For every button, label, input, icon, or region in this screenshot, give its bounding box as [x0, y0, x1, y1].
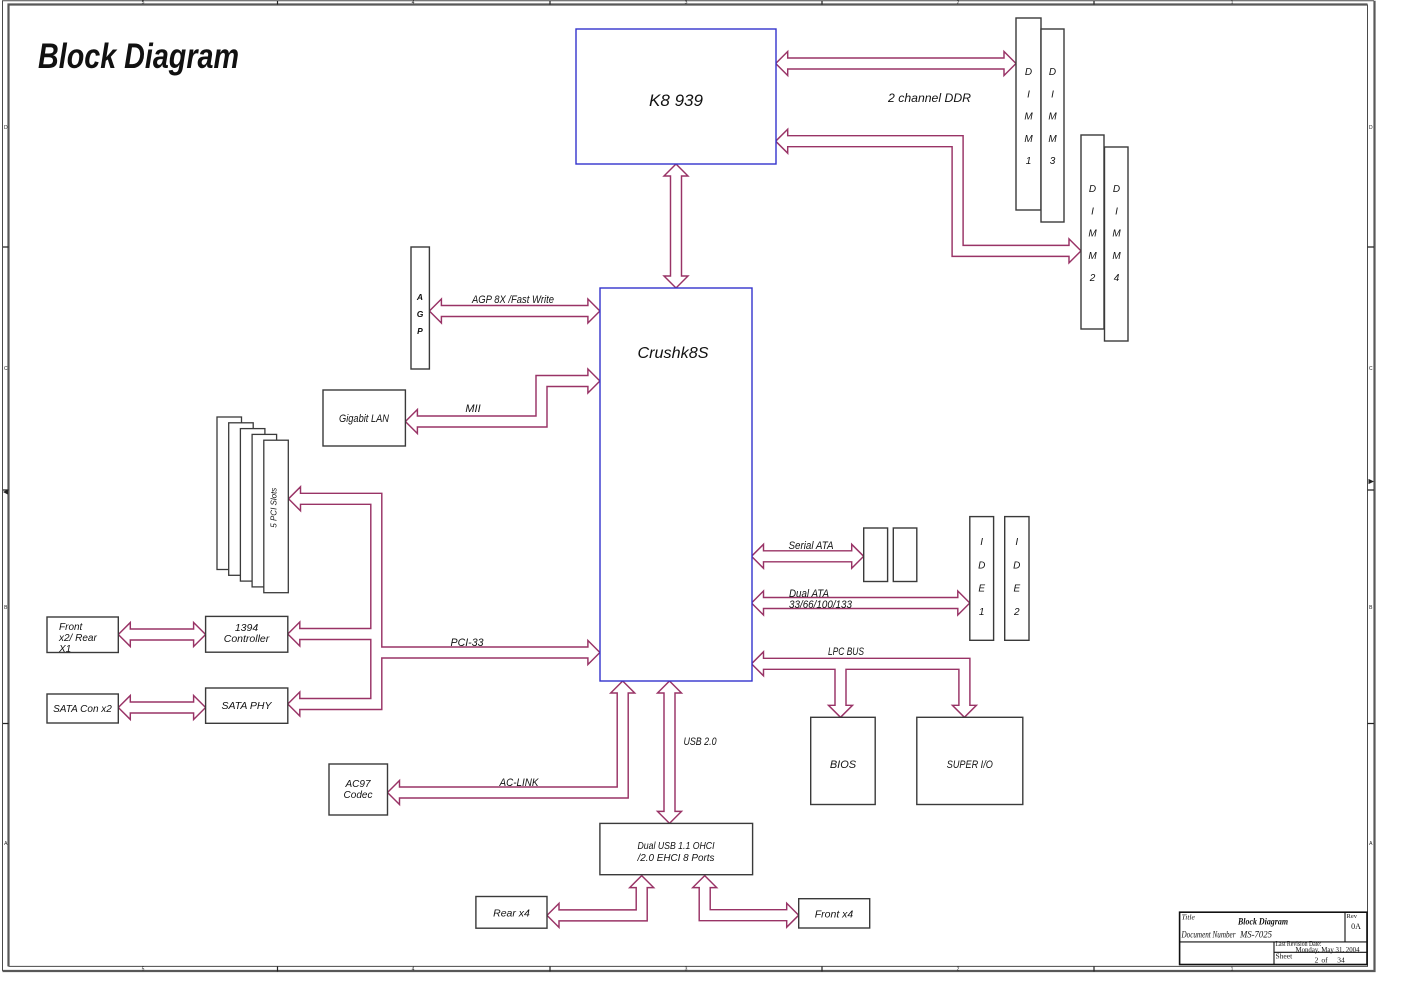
svg-text:1: 1 — [1231, 967, 1234, 973]
arrow AC-LINK elbow — [388, 681, 635, 805]
block SATA Con x2 — [47, 694, 118, 723]
svg-text:5: 5 — [142, 967, 145, 973]
title block frame — [1180, 912, 1367, 964]
svg-text:SUPER I/O: SUPER I/O — [947, 759, 993, 771]
svg-text:G: G — [417, 309, 424, 319]
svg-text:Block Diagram: Block Diagram — [38, 37, 239, 76]
block Crushk8S — [600, 288, 752, 681]
svg-text:I: I — [1027, 89, 1030, 100]
svg-text:Dual USB 1.1 OHCI: Dual USB 1.1 OHCI — [638, 840, 715, 852]
svg-text:D: D — [1369, 125, 1373, 131]
net label Dual ATA 33/66/100/133 — [789, 588, 853, 611]
svg-text:K8 939: K8 939 — [649, 91, 703, 110]
svg-text:D: D — [1025, 67, 1032, 78]
svg-text:D: D — [1049, 67, 1056, 78]
svg-text:D: D — [978, 560, 985, 571]
svg-text:Title: Title — [1182, 913, 1196, 922]
block BIOS — [811, 717, 876, 804]
label IDE2 — [1013, 537, 1020, 618]
svg-text:Front: Front — [59, 622, 84, 633]
label Front x2/Rear X1 — [58, 622, 97, 655]
svg-text:AC-LINK: AC-LINK — [499, 777, 539, 789]
arrow K8-DIMM channel A (2 channel DDR) — [776, 52, 1016, 76]
svg-text:AGP 8X /Fast Write: AGP 8X /Fast Write — [471, 294, 554, 306]
svg-text:3: 3 — [685, 0, 688, 6]
block 1394 Controller — [206, 616, 288, 652]
svg-text:M: M — [1112, 229, 1121, 240]
svg-text:1: 1 — [1231, 0, 1234, 6]
block Rear x4 — [476, 897, 547, 929]
label Dual USB 1.1 OHCI /2.0 EHCI 8 Ports — [637, 840, 716, 864]
label DIMM3 — [1048, 67, 1057, 167]
svg-text:/2.0 EHCI 8 Ports: /2.0 EHCI 8 Ports — [637, 852, 716, 864]
block AC97 Codec — [329, 764, 388, 815]
block K8 939 — [576, 29, 776, 164]
label DIMM4 — [1112, 184, 1121, 284]
arrow MII elbow — [405, 369, 600, 434]
svg-text:A: A — [416, 292, 423, 302]
block SATA connector 1 — [864, 528, 888, 582]
arrow Rear x4 elbow — [547, 876, 654, 928]
svg-text:M: M — [1088, 251, 1097, 262]
arrow LPC BUS to BIOS and SUPER I/O — [752, 652, 977, 718]
svg-text:4: 4 — [1114, 273, 1120, 284]
svg-text:I: I — [1091, 206, 1094, 217]
svg-text:MS-7025: MS-7025 — [1239, 930, 1272, 940]
block 5 PCI slots — [217, 417, 288, 593]
svg-text:E: E — [1013, 584, 1020, 595]
arrow K8-DIMM2 channel B elbow — [776, 129, 1081, 263]
svg-text:I: I — [1015, 537, 1018, 548]
svg-text:D: D — [1013, 560, 1020, 571]
border fold marks — [3, 479, 1374, 495]
arrow AGP 8X — [429, 299, 600, 323]
svg-text:MII: MII — [465, 403, 480, 415]
block Gigabit LAN — [323, 390, 405, 446]
label DIMM2 — [1088, 184, 1097, 284]
block Front x4 — [799, 899, 870, 928]
label IDE1 — [978, 537, 985, 618]
svg-text:I: I — [1115, 206, 1118, 217]
svg-text:D: D — [4, 125, 8, 131]
svg-text:Serial ATA: Serial ATA — [789, 540, 834, 552]
svg-text:2: 2 — [1013, 607, 1020, 618]
block SATA PHY — [206, 688, 288, 723]
svg-text:AC97: AC97 — [344, 779, 370, 790]
svg-text:x2/ Rear: x2/ Rear — [58, 633, 97, 644]
svg-text:X1: X1 — [58, 644, 71, 655]
arrow Dual ATA — [752, 591, 970, 615]
svg-text:Controller: Controller — [224, 633, 270, 645]
svg-text:M: M — [1048, 112, 1057, 123]
svg-text:LPC BUS: LPC BUS — [828, 646, 865, 658]
svg-text:Monday, May 31, 2004: Monday, May 31, 2004 — [1296, 945, 1360, 954]
svg-text:1: 1 — [1026, 156, 1032, 167]
svg-text:USB 2.0: USB 2.0 — [684, 736, 718, 748]
block IDE2 — [1005, 517, 1029, 641]
svg-text:M: M — [1088, 229, 1097, 240]
svg-text:Gigabit LAN: Gigabit LAN — [339, 413, 389, 425]
svg-text:I: I — [1051, 89, 1054, 100]
svg-text:PCI-33: PCI-33 — [451, 637, 485, 649]
block SATA connector 2 — [893, 528, 917, 582]
arrow Front x4 elbow — [693, 876, 799, 928]
svg-text:M: M — [1024, 112, 1033, 123]
block DIMM2 — [1081, 135, 1104, 329]
label AC97 Codec — [344, 779, 373, 801]
svg-text:3: 3 — [1050, 156, 1056, 167]
svg-text:SATA Con x2: SATA Con x2 — [53, 704, 112, 715]
svg-text:of: of — [1321, 955, 1328, 964]
arrow SATACon-SATAPHY — [118, 696, 205, 720]
svg-text:M: M — [1112, 251, 1121, 262]
svg-text:4: 4 — [412, 967, 415, 973]
svg-text:Block Diagram: Block Diagram — [1237, 917, 1288, 927]
svg-text:2 channel DDR: 2 channel DDR — [887, 91, 971, 105]
arrow Serial ATA — [752, 544, 864, 568]
arrow Front-1394 — [118, 623, 205, 647]
svg-text:Rev: Rev — [1347, 913, 1358, 920]
block DIMM4 — [1105, 147, 1129, 341]
block IDE1 — [970, 517, 994, 641]
block Front x2/Rear X1 — [47, 617, 118, 653]
svg-text:2: 2 — [1089, 273, 1096, 284]
svg-text:34: 34 — [1337, 955, 1345, 964]
svg-text:Crushk8S: Crushk8S — [638, 345, 710, 362]
svg-text:P: P — [417, 326, 423, 336]
svg-text:0A: 0A — [1351, 922, 1361, 931]
arrow PCI trunk with PCI-33 / 1394 / SATA PHY branches — [288, 487, 600, 716]
label AGP — [416, 292, 424, 336]
svg-text:5: 5 — [142, 0, 145, 6]
svg-text:Front x4: Front x4 — [815, 909, 854, 921]
svg-text:BIOS: BIOS — [830, 759, 857, 771]
arrow USB 2.0 — [658, 681, 682, 823]
svg-text:1: 1 — [979, 607, 985, 618]
svg-text:Codec: Codec — [344, 790, 373, 801]
svg-text:33/66/100/133: 33/66/100/133 — [789, 599, 853, 611]
svg-text:C: C — [1369, 366, 1373, 372]
svg-text:M: M — [1024, 134, 1033, 145]
svg-text:2: 2 — [957, 967, 960, 973]
svg-text:4: 4 — [412, 0, 415, 6]
arrow K8-Crushk8S hypertransport — [664, 164, 688, 288]
svg-text:2: 2 — [1315, 955, 1319, 964]
svg-text:C: C — [4, 366, 8, 372]
svg-text:M: M — [1048, 134, 1057, 145]
block SUPER I/O — [917, 717, 1023, 804]
svg-text:Rear x4: Rear x4 — [493, 908, 530, 920]
svg-text:D: D — [1113, 184, 1120, 195]
block DIMM1 — [1016, 18, 1041, 210]
svg-text:5 PCI Slots: 5 PCI Slots — [268, 487, 278, 528]
label 1394 Controller — [224, 622, 270, 645]
block Dual USB — [600, 823, 753, 874]
svg-text:2: 2 — [957, 0, 960, 6]
svg-text:Document Number: Document Number — [1181, 930, 1236, 940]
svg-text:Sheet: Sheet — [1276, 952, 1294, 961]
svg-text:D: D — [1089, 184, 1096, 195]
svg-text:I: I — [980, 537, 983, 548]
block AGP — [411, 247, 429, 369]
svg-text:SATA PHY: SATA PHY — [222, 700, 273, 712]
svg-text:E: E — [978, 584, 985, 595]
svg-text:3: 3 — [685, 967, 688, 973]
label DIMM1 — [1024, 67, 1033, 167]
block DIMM3 — [1041, 29, 1064, 222]
